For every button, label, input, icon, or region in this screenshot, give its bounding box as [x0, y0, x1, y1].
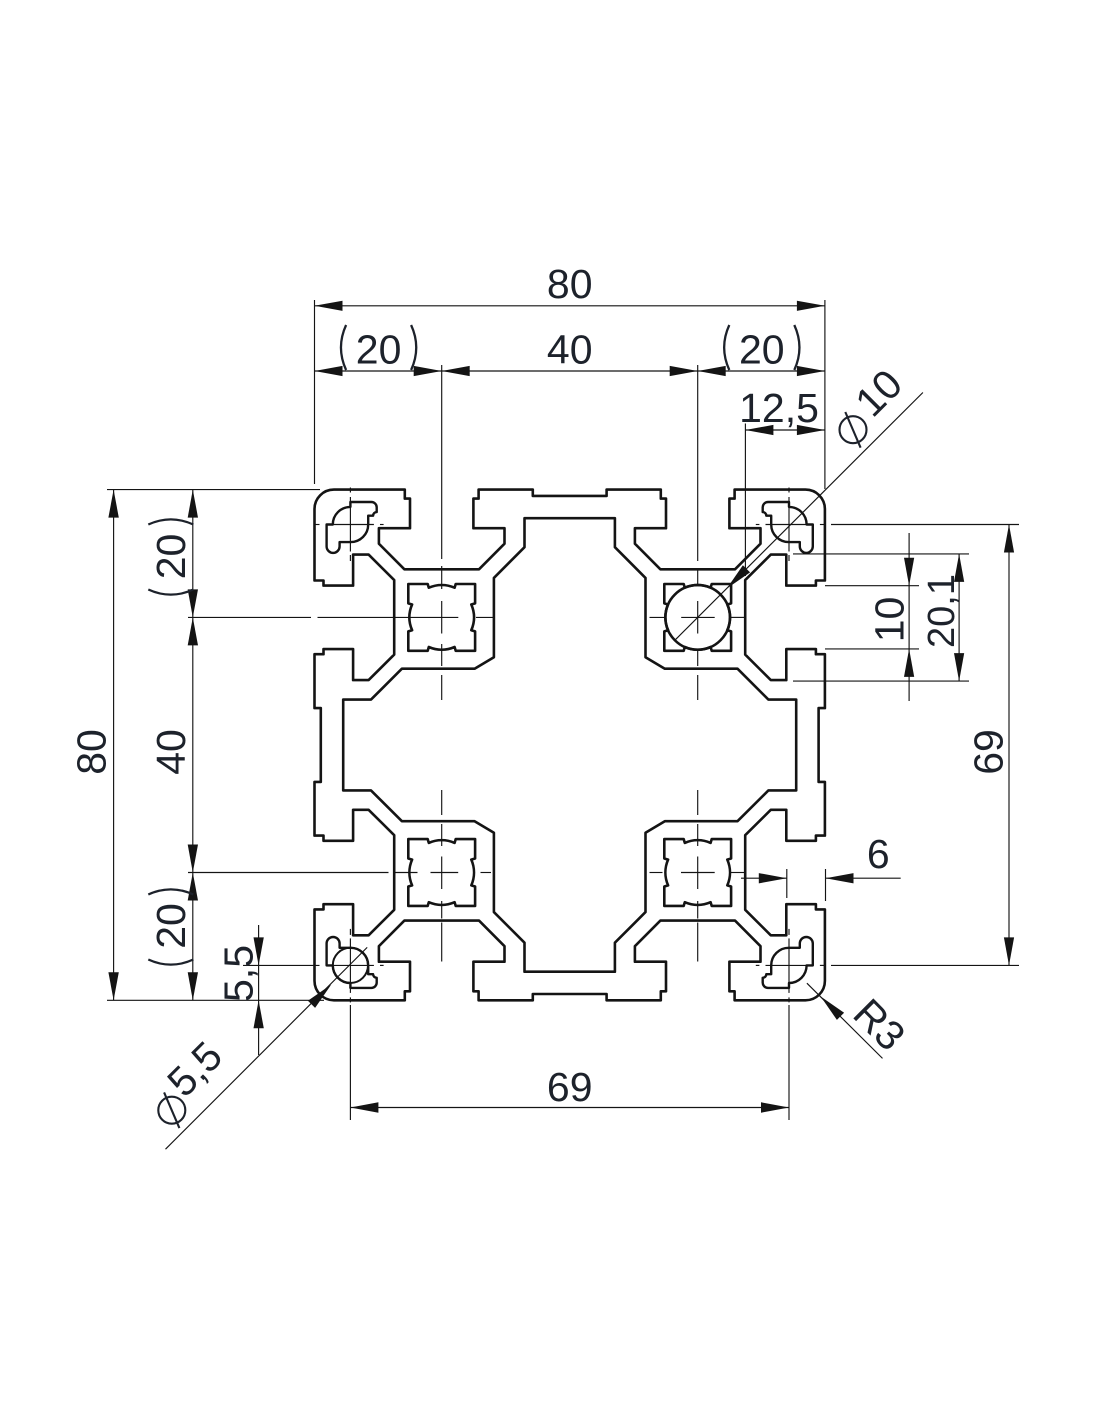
svg-text:20: 20 — [356, 327, 402, 373]
svg-text:40: 40 — [547, 327, 593, 373]
svg-text:20: 20 — [739, 327, 785, 373]
svg-text:R3: R3 — [845, 990, 915, 1060]
svg-text:20: 20 — [148, 903, 194, 949]
svg-text:5,5: 5,5 — [215, 945, 261, 1002]
svg-text:40: 40 — [148, 729, 194, 775]
svg-text:20: 20 — [148, 534, 194, 580]
svg-text:12,5: 12,5 — [739, 385, 819, 431]
svg-text:80: 80 — [547, 261, 593, 307]
svg-text:69: 69 — [966, 729, 1012, 775]
svg-text:80: 80 — [68, 729, 114, 775]
svg-text:10: 10 — [867, 597, 913, 643]
svg-text:6: 6 — [867, 831, 890, 877]
svg-text:69: 69 — [547, 1064, 593, 1110]
svg-text:20,1: 20,1 — [921, 574, 963, 648]
